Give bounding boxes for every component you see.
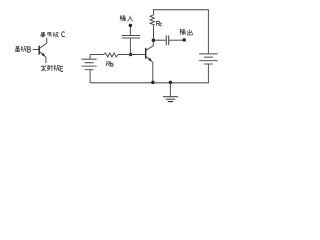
base wire left segment: [90, 54, 104, 56]
capacitor C2 (output coupling): [166, 35, 168, 45]
node ground junction: [169, 81, 173, 85]
right vertical wire to battery: [207, 10, 209, 54]
bottom rail wire: [90, 82, 209, 84]
node emitter-rail junction: [151, 81, 155, 85]
label Rc letters: [157, 21, 160, 26]
wire emitter down to rail: [152, 62, 154, 82]
label Rb letters: [107, 62, 110, 67]
node collector junction: [152, 38, 156, 42]
wire C2 to output node: [169, 39, 184, 41]
label 输入: [120, 15, 133, 21]
transistor Q1 emitter lead with arrow: [146, 56, 153, 62]
transistor symbol: collector lead: [40, 38, 47, 49]
ground symbol: [169, 83, 171, 97]
label 输出: [180, 29, 193, 35]
transistor symbol: bar: [38, 46, 40, 55]
battery E1 bottom stub: [89, 70, 91, 83]
label 基极B: [15, 46, 31, 52]
resistor Rc bottom lead: [153, 26, 155, 39]
wire collector node to C2: [155, 39, 166, 41]
base wire right segment: [118, 54, 146, 56]
top rail wire: [153, 9, 209, 11]
label 发射极E: [41, 65, 63, 71]
transistor Q1 collector lead: [146, 42, 153, 50]
label Rb: [107, 61, 113, 66]
label Rc: [157, 21, 163, 26]
node base junction: [129, 53, 133, 57]
transistor symbol: emitter lead with arrow: [40, 52, 46, 58]
label 集电极C: [40, 32, 65, 38]
capacitor C1 (input coupling): [122, 36, 140, 39]
battery E2 bottom stub: [207, 64, 209, 83]
battery E2 plates: [199, 54, 217, 64]
input terminal node: [129, 24, 133, 28]
output terminal node: [182, 38, 186, 42]
resistor Rc (vertical zigzag): [150, 15, 154, 26]
transistor Q1 bar: [145, 48, 147, 59]
resistor Rb (zigzag): [104, 53, 118, 57]
battery E1 plates: [82, 59, 97, 69]
transistor symbol: base wire: [33, 49, 40, 51]
wire C1 down to base node: [129, 39, 131, 55]
battery E1 top stub: [89, 55, 91, 60]
wire input down to C1: [129, 27, 131, 35]
resistor Rc top lead: [153, 10, 155, 15]
